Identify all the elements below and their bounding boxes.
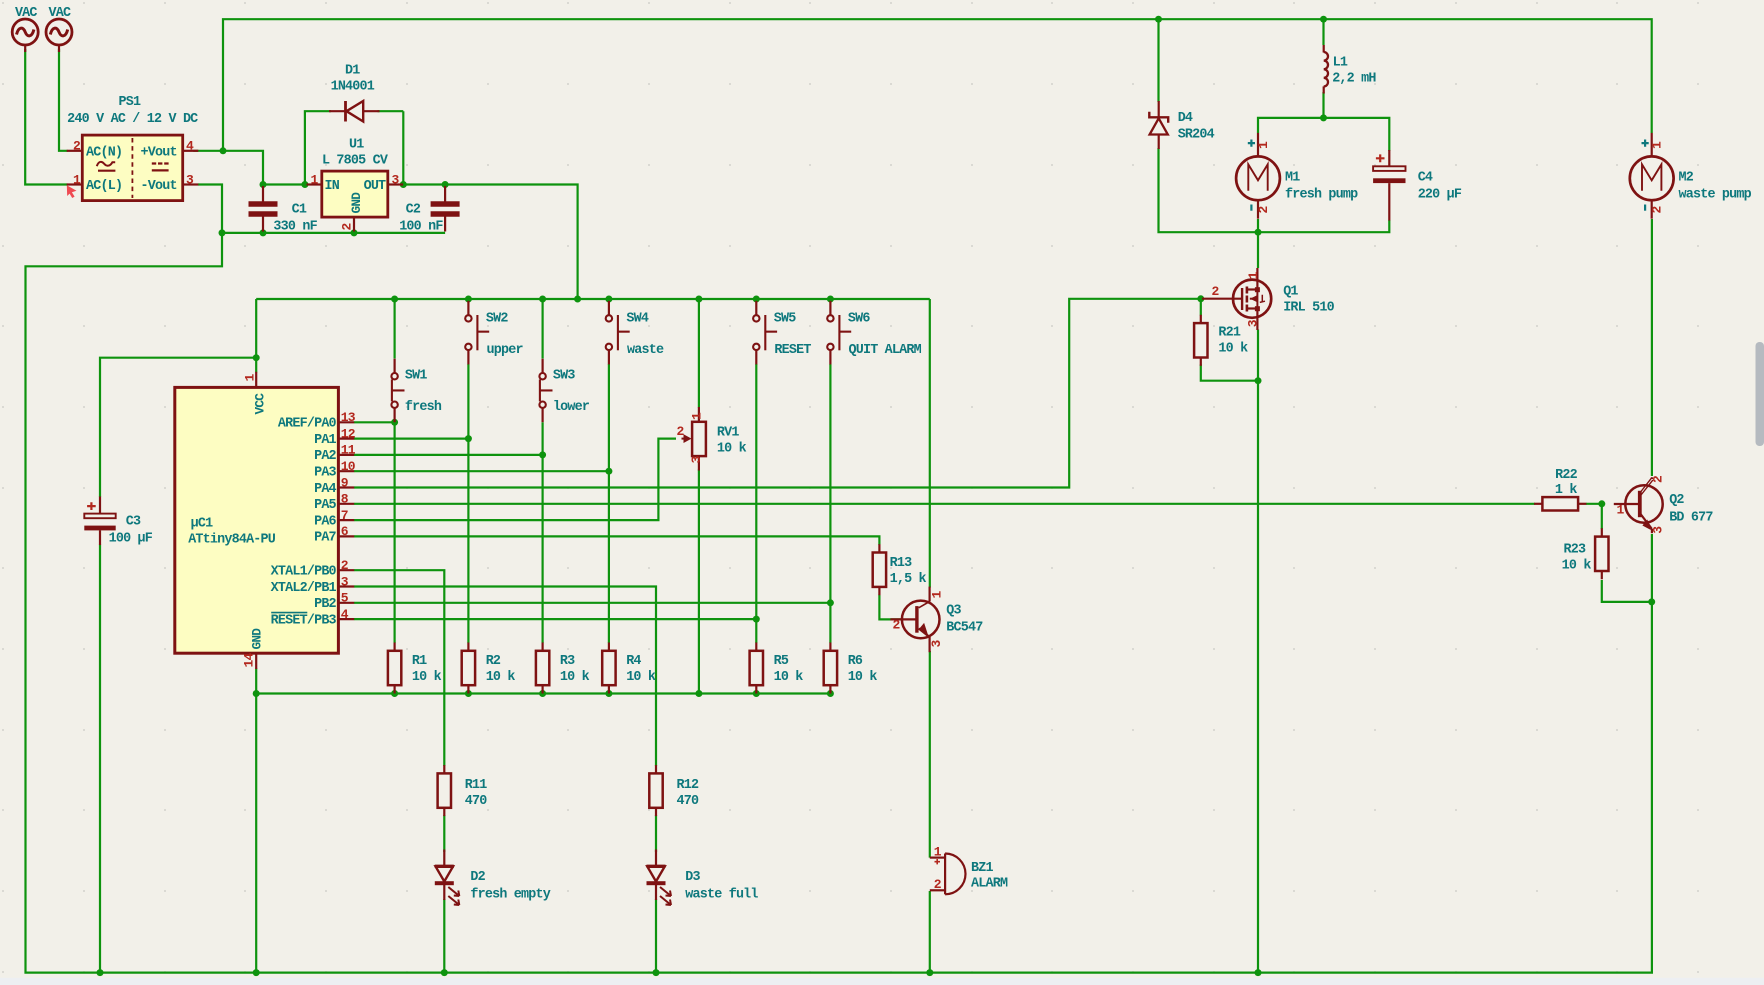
svg-text:waste: waste [627,343,664,358]
svg-text:7: 7 [341,508,348,523]
svg-text:3: 3 [1651,526,1666,534]
svg-text:RESET: RESET [774,343,811,358]
svg-text:1: 1 [930,591,945,599]
svg-text:9: 9 [341,475,349,490]
wire AC(N) net: VAC2 to PS1 pin 2 [59,49,68,151]
svg-text:AC(N): AC(N) [86,145,122,160]
svg-text:R3: R3 [560,654,575,669]
svg-text:SW3: SW3 [553,368,575,383]
resistor R4 [602,643,615,694]
wire Q3 base net: R13 to Q3 [879,595,902,620]
resistor R6 [824,643,837,694]
svg-text:IN: IN [325,179,340,194]
svg-text:10 k: 10 k [412,670,442,685]
svg-text:14: 14 [242,652,257,667]
svg-text:3: 3 [689,456,704,464]
resistor R1 [388,643,401,694]
svg-text:PB2: PB2 [314,597,336,612]
svg-text:SR204: SR204 [1178,128,1215,143]
svg-text:XTAL1/PB0: XTAL1/PB0 [271,565,337,580]
svg-text:1 k: 1 k [1555,483,1577,498]
switch SW5 [753,301,777,365]
svg-text:R6: R6 [848,654,863,669]
resistor R13 [873,544,886,595]
capacitor C2 [431,186,460,232]
svg-text:SW4: SW4 [626,312,648,327]
resistor R21 [1194,315,1207,366]
svg-text:1N4001: 1N4001 [331,80,375,95]
wire +5V net: U1 OUT, C2, rail to switches, RV1, C3, VCC, Q3 collector [100,111,930,587]
svg-text:VAC: VAC [49,6,71,21]
svg-text:3: 3 [1246,319,1261,327]
svg-text:D4: D4 [1178,111,1193,126]
wire PA6 net: pin 7 to RV1 wiper [354,439,676,520]
svg-text:R23: R23 [1563,542,1585,557]
svg-text:PA4: PA4 [314,482,336,497]
wire PA4 net: pin 9 to Q1 gate / R21 [354,299,1201,488]
svg-text:2: 2 [677,424,685,439]
svg-text:VAC: VAC [15,6,37,21]
svg-text:2: 2 [893,617,901,632]
diode D4 SR204 [1149,101,1168,149]
wire PA3 net: pin 10 to SW4 / R4 [354,364,609,643]
svg-text:C3: C3 [126,515,141,530]
wire XTAL2/PB1 net: pin 3 to R12 [354,587,656,853]
svg-text:VCC: VCC [253,393,268,415]
svg-text:2: 2 [1212,284,1220,299]
resistor R22 [1534,497,1586,510]
svg-text:µC1: µC1 [191,517,213,532]
svg-text:R13: R13 [890,556,912,571]
svg-text:D2: D2 [470,870,485,885]
svg-text:1: 1 [243,374,258,382]
svg-text:10 k: 10 k [848,670,878,685]
capacitor C1 [249,186,278,232]
svg-text:3: 3 [186,172,194,187]
wire AREF/PA0 net: pin 13 to SW1 / R1 [354,422,395,643]
wire buzzer net: Q3 emitter to BZ1 pin 1 [929,651,931,858]
svg-text:10 k: 10 k [1562,559,1592,574]
svg-text:PA1: PA1 [314,433,336,448]
svg-text:2: 2 [1650,206,1665,214]
motor M2 waste pump [1630,133,1674,219]
wire PA2 net: pin 11 to SW3 / R3 [354,422,543,643]
svg-text:2,2 mH: 2,2 mH [1332,71,1376,86]
svg-text:330 nF: 330 nF [273,219,317,234]
svg-text:1: 1 [1246,271,1261,279]
svg-text:13: 13 [341,410,356,425]
svg-text:XTAL2/PB1: XTAL2/PB1 [271,581,337,596]
led D2 fresh empty [435,850,460,906]
svg-text:1: 1 [690,412,705,420]
cursor arrow at PS1 pin 1 [67,185,77,198]
svg-text:SW2: SW2 [486,312,508,327]
svg-text:fresh empty: fresh empty [470,887,550,902]
svg-text:10 k: 10 k [717,442,747,457]
svg-text:SW1: SW1 [405,368,427,383]
svg-text:100 nF: 100 nF [399,219,443,234]
wire PA7 net: pin 6 to R13 [354,536,879,545]
potentiometer RV1 [682,407,706,471]
svg-text:SW6: SW6 [848,312,870,327]
svg-text:SW5: SW5 [774,312,796,327]
junction dots uC1 pin rows [391,419,834,623]
ac source VAC2 [46,19,72,52]
svg-text:lower: lower [553,400,590,415]
resistor R2 [462,643,475,694]
svg-text:10: 10 [341,459,356,474]
switch SW4 [606,301,630,365]
svg-text:ALARM: ALARM [971,876,1008,891]
svg-text:L1: L1 [1333,56,1348,71]
wire PB2 net: pin 5 to SW6 / R6 [354,364,830,643]
svg-text:R5: R5 [774,654,789,669]
svg-text:R12: R12 [677,778,699,793]
switch SW3 [539,359,552,423]
resistor R5 [750,643,763,694]
svg-text:470: 470 [465,794,487,809]
svg-text:1: 1 [73,172,81,187]
svg-text:GND: GND [250,628,265,650]
svg-text:R2: R2 [486,654,501,669]
svg-text:PA3: PA3 [314,466,336,481]
wire AC(L) net: VAC1 to PS1 pin 1 [25,49,67,185]
svg-text:10 k: 10 k [560,670,590,685]
junction dots GND rail top [219,229,358,236]
svg-text:470: 470 [677,794,699,809]
svg-text:U1: U1 [349,138,364,153]
svg-text:10 k: 10 k [774,670,804,685]
svg-text:3: 3 [929,640,944,648]
svg-text:1: 1 [1256,141,1271,149]
svg-text:IRL 510: IRL 510 [1283,301,1334,316]
wire motor loop net: L1 bottom / M1 top / C4 top [1258,92,1389,151]
svg-text:1: 1 [1650,141,1665,149]
svg-text:R22: R22 [1555,468,1577,483]
svg-text:M1: M1 [1285,171,1300,186]
svg-text:8: 8 [341,492,349,507]
svg-text:2: 2 [1256,206,1271,214]
svg-text:5: 5 [341,591,349,606]
svg-text:PA6: PA6 [314,514,336,529]
svg-text:waste full: waste full [685,887,758,902]
junction dots +12V / U1 row [220,16,1328,236]
svg-text:R21: R21 [1218,325,1240,340]
transistor Q2 BD677 [1614,477,1663,533]
svg-text:1: 1 [934,844,942,859]
svg-text:PA5: PA5 [314,498,336,513]
svg-text:L 7805 CV: L 7805 CV [322,154,389,169]
svg-text:M2: M2 [1679,171,1694,186]
junction dots +5V rail [253,296,834,362]
svg-text:-Vout: -Vout [141,179,177,194]
svg-text:C2: C2 [406,203,421,218]
svg-text:R4: R4 [626,654,641,669]
capacitor C4 polarized [1373,150,1405,221]
resistor R12 [649,765,662,816]
uC1 right side pin stubs [338,422,354,619]
svg-text:2: 2 [73,139,81,154]
svg-text:1: 1 [1617,502,1625,517]
svg-text:C1: C1 [292,203,307,218]
microcontroller uC1 ATtiny84A body [175,372,339,669]
transistor Q1 IRL510 mosfet [1202,268,1271,330]
svg-text:100 µF: 100 µF [109,532,153,547]
svg-text:PA2: PA2 [314,449,336,464]
svg-text:2: 2 [934,877,942,892]
regulator U1 L7805 body [307,171,404,231]
wire M2 net: M2 pin 2 to Q2 collector [1651,219,1653,476]
svg-text:2: 2 [1651,475,1666,483]
transistor Q3 BC547 [890,587,939,653]
svg-text:6: 6 [341,524,349,539]
scrollbar thumb [1756,342,1764,446]
svg-text:2: 2 [340,223,355,231]
wire PA1 net: pin 12 to SW2 / R2 [354,364,468,643]
svg-text:waste pump: waste pump [1679,188,1752,203]
resistor R3 [536,643,549,694]
svg-text:C4: C4 [1418,171,1433,186]
junction dots right side [1197,295,1655,605]
svg-text:BD 677: BD 677 [1669,511,1713,526]
svg-text:upper: upper [487,343,524,358]
svg-text:4: 4 [341,607,349,622]
svg-text:AC(L): AC(L) [86,179,122,194]
svg-text:ATtiny84A-PU: ATtiny84A-PU [188,533,276,548]
motor M1 fresh pump [1236,133,1280,219]
svg-text:AREF/PA0: AREF/PA0 [278,417,337,432]
svg-text:240 V AC / 12 V DC: 240 V AC / 12 V DC [67,112,198,127]
capacitor C3 polarized [84,497,115,546]
svg-text:R1: R1 [412,654,427,669]
wire RESET/PB3 net: pin 4 to SW5 / R5 [354,364,756,643]
svg-text:4: 4 [186,139,194,154]
led D3 waste full [647,850,672,906]
svg-text:Q1: Q1 [1283,285,1298,300]
resistor R23 [1595,528,1608,579]
svg-text:D1: D1 [345,64,360,79]
switch SW6 [827,301,851,365]
svg-text:GND: GND [349,192,364,214]
svg-text:2: 2 [341,558,349,573]
svg-text:PS1: PS1 [119,95,141,110]
svg-text:QUIT ALARM: QUIT ALARM [849,343,922,358]
svg-text:fresh pump: fresh pump [1285,188,1358,203]
wire GND net: C1/C2/U1 rail, left leg, bottom rail, C3, uC1, R bottoms, LEDs, buzzer, Q1 source, Q2 emitter [26,185,1652,973]
svg-text:BC547: BC547 [946,620,983,635]
junction dots bottom rail [97,969,1262,976]
svg-text:Q2: Q2 [1669,493,1684,508]
switch SW1 [391,359,404,423]
svg-text:10 k: 10 k [486,670,516,685]
svg-text:D3: D3 [685,870,700,885]
resistor R11 [438,765,451,816]
diode D1 1N4001 [329,101,380,122]
svg-text:3: 3 [341,574,349,589]
status bar strip [0,978,1764,985]
power supply PS1 body [67,135,199,201]
svg-text:11: 11 [341,443,356,458]
svg-text:fresh: fresh [405,400,442,415]
svg-text:3: 3 [392,172,400,187]
svg-text:OUT: OUT [364,179,386,194]
svg-text:Q3: Q3 [946,604,961,619]
svg-text:BZ1: BZ1 [971,861,993,876]
wire PA5 net: pin 8 to R22 to Q2 base / R23 [354,504,1604,529]
wire +12V net: PS1 +Vout to top rail, D1, C1, U1 IN [193,19,1652,268]
svg-text:RESET/PB3: RESET/PB3 [271,613,337,628]
switch SW2 [465,301,489,365]
svg-text:10 k: 10 k [1218,341,1248,356]
svg-text:RV1: RV1 [717,426,739,441]
ac source VAC1 [12,19,38,52]
buzzer BZ1 [930,854,966,895]
wire XTAL1/PB0 net: pin 2 to R11 [354,570,444,852]
svg-text:10 k: 10 k [626,670,656,685]
junction dots resistor GND rail [253,690,834,697]
svg-text:220 µF: 220 µF [1418,188,1462,203]
svg-text:12: 12 [341,426,356,441]
svg-text:R11: R11 [465,778,487,793]
svg-text:PA7: PA7 [314,531,336,546]
inductor L1 [1324,45,1328,94]
svg-text:1: 1 [310,172,318,187]
svg-text:+Vout: +Vout [141,145,177,160]
svg-text:1,5 k: 1,5 k [890,572,927,587]
